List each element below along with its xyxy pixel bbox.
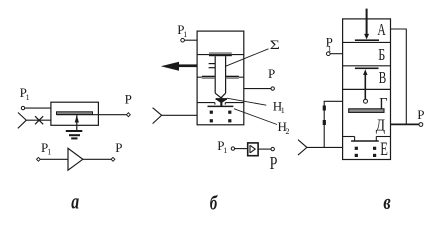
svg-text:P: P: [125, 92, 132, 107]
wire chamber G to throttle branch (part v): [324, 101, 342, 147]
svg-text:2: 2: [286, 127, 290, 136]
formula node P1 (part b bottom): [231, 147, 234, 150]
node P (part v): [419, 123, 423, 127]
leader line Sigma (part b): [226, 49, 269, 66]
porous pad dots (part b): [210, 111, 232, 123]
svg-text:б: б: [210, 191, 218, 214]
feedback wire right (part v): [391, 29, 407, 124]
svg-text:P: P: [268, 66, 275, 81]
nozzle floor with gap (part b): [197, 103, 244, 105]
stem convergence (part b): [215, 93, 225, 97]
formula wire out (part b bottom): [258, 148, 271, 150]
svg-text:а: а: [71, 190, 79, 214]
formula amplifier box (part b bottom): [248, 143, 258, 156]
node P (part b): [271, 87, 274, 90]
membrane 2 rigid centre gray (part b): [202, 77, 239, 79]
leader line H2 (part b): [234, 109, 277, 125]
element body box (part b): [197, 31, 244, 125]
amplifier triangle (part a): [68, 148, 83, 170]
flapper line / output wire (part a): [57, 114, 127, 116]
wire vent to box bottom (part v): [307, 146, 343, 148]
stem with up arrow (part a): [76, 115, 78, 130]
element body box (part v): [343, 19, 391, 160]
node P (part a amplifier): [111, 157, 115, 161]
nozzle seat (part v): [351, 140, 379, 142]
throttle 1 (part v): [323, 106, 326, 111]
relay box (part a): [51, 102, 99, 125]
label P1 (part a amplifier): [41, 140, 51, 156]
node P1 (part a amplifier): [37, 157, 41, 161]
node P output (part a): [127, 113, 131, 117]
svg-text:В: В: [379, 69, 386, 88]
closed throttle X (part a): [35, 116, 43, 124]
svg-text:1: 1: [223, 146, 227, 155]
membrane 1 line (part b): [197, 54, 244, 56]
membrane A rigid bar (part v): [355, 39, 379, 41]
label P1 left (part v): [326, 35, 333, 54]
formula amplifier symbol (part b bottom): [250, 145, 255, 153]
node P1 (part b): [181, 38, 185, 42]
ball on stem (part v): [364, 99, 368, 103]
wire vent to box (part a): [26, 119, 51, 121]
membrane A line (part v): [343, 41, 391, 43]
formula wire in (part b bottom): [235, 148, 248, 150]
label P1 (input, part a top): [20, 85, 30, 102]
wire P output (part b): [244, 88, 271, 90]
wire P1 to box (part a): [25, 107, 51, 109]
membrane 1 rigid centre gray (part b): [209, 52, 232, 54]
nozzle seat (part b): [208, 105, 234, 107]
membrane D slab (part v): [349, 109, 384, 113]
wire vent to box (part b): [162, 114, 198, 116]
svg-text:P: P: [417, 107, 424, 122]
label H1 (part b): [273, 98, 285, 115]
formula node P (part b bottom): [271, 147, 274, 150]
membrane 2 lines (part b): [197, 76, 244, 78]
nozzle vent symbol (part a): [18, 113, 27, 129]
wire P1 to box (part b): [184, 39, 197, 41]
label P1 (part b top input): [177, 22, 187, 39]
svg-text:Д: Д: [376, 116, 386, 135]
wire amplifier to P (part a): [83, 158, 111, 160]
node P1 left (part v): [327, 52, 331, 56]
leader line H1 (part b): [227, 98, 266, 105]
membrane 2 rigid centre dark (part b): [202, 76, 239, 78]
stem with up arrow (part v): [363, 69, 367, 75]
svg-text:1: 1: [26, 93, 30, 102]
svg-text:Σ: Σ: [270, 39, 280, 52]
label H2 (part b): [278, 119, 290, 136]
porous pad dots (part v): [355, 147, 377, 157]
ground symbol (part a): [66, 130, 83, 139]
wire P output (part v): [391, 123, 420, 125]
svg-text:1: 1: [281, 106, 285, 115]
divider line (part v): [343, 88, 391, 90]
formula label P1 (part b bottom): [217, 138, 227, 155]
membrane B rigid bar (part v): [355, 68, 379, 70]
flapper arrow down (part b): [216, 98, 227, 106]
supply line from top (part v): [366, 9, 368, 37]
membrane plate (part a): [57, 112, 93, 115]
svg-text:P: P: [270, 155, 278, 174]
svg-text:1: 1: [183, 30, 187, 39]
membrane B line (part v): [343, 65, 391, 67]
hollow stem walls (part b): [215, 56, 225, 93]
svg-text:P: P: [115, 140, 122, 155]
vent nozzle symbol (part b): [153, 108, 162, 124]
nozzle floor with gap (part v): [343, 137, 391, 141]
wire P1 to amplifier (part a): [40, 158, 68, 160]
wire P1 to box (part v): [330, 53, 343, 55]
svg-text:в: в: [383, 191, 391, 215]
node P1 (part a top): [21, 106, 24, 109]
membrane 1 rigid centre dark (part b): [209, 55, 232, 57]
vent nozzle symbol (part v): [298, 140, 307, 155]
svg-text:1: 1: [47, 148, 51, 157]
throttle 2 (part v): [323, 120, 326, 125]
svg-text:Б: Б: [378, 46, 385, 64]
supply arrow down (part v): [364, 34, 369, 40]
stem bracket stubs (part b): [209, 64, 216, 68]
bold output arrow to atmosphere (part b): [161, 62, 197, 71]
svg-text:Е: Е: [380, 140, 388, 160]
svg-text:А: А: [377, 21, 386, 40]
